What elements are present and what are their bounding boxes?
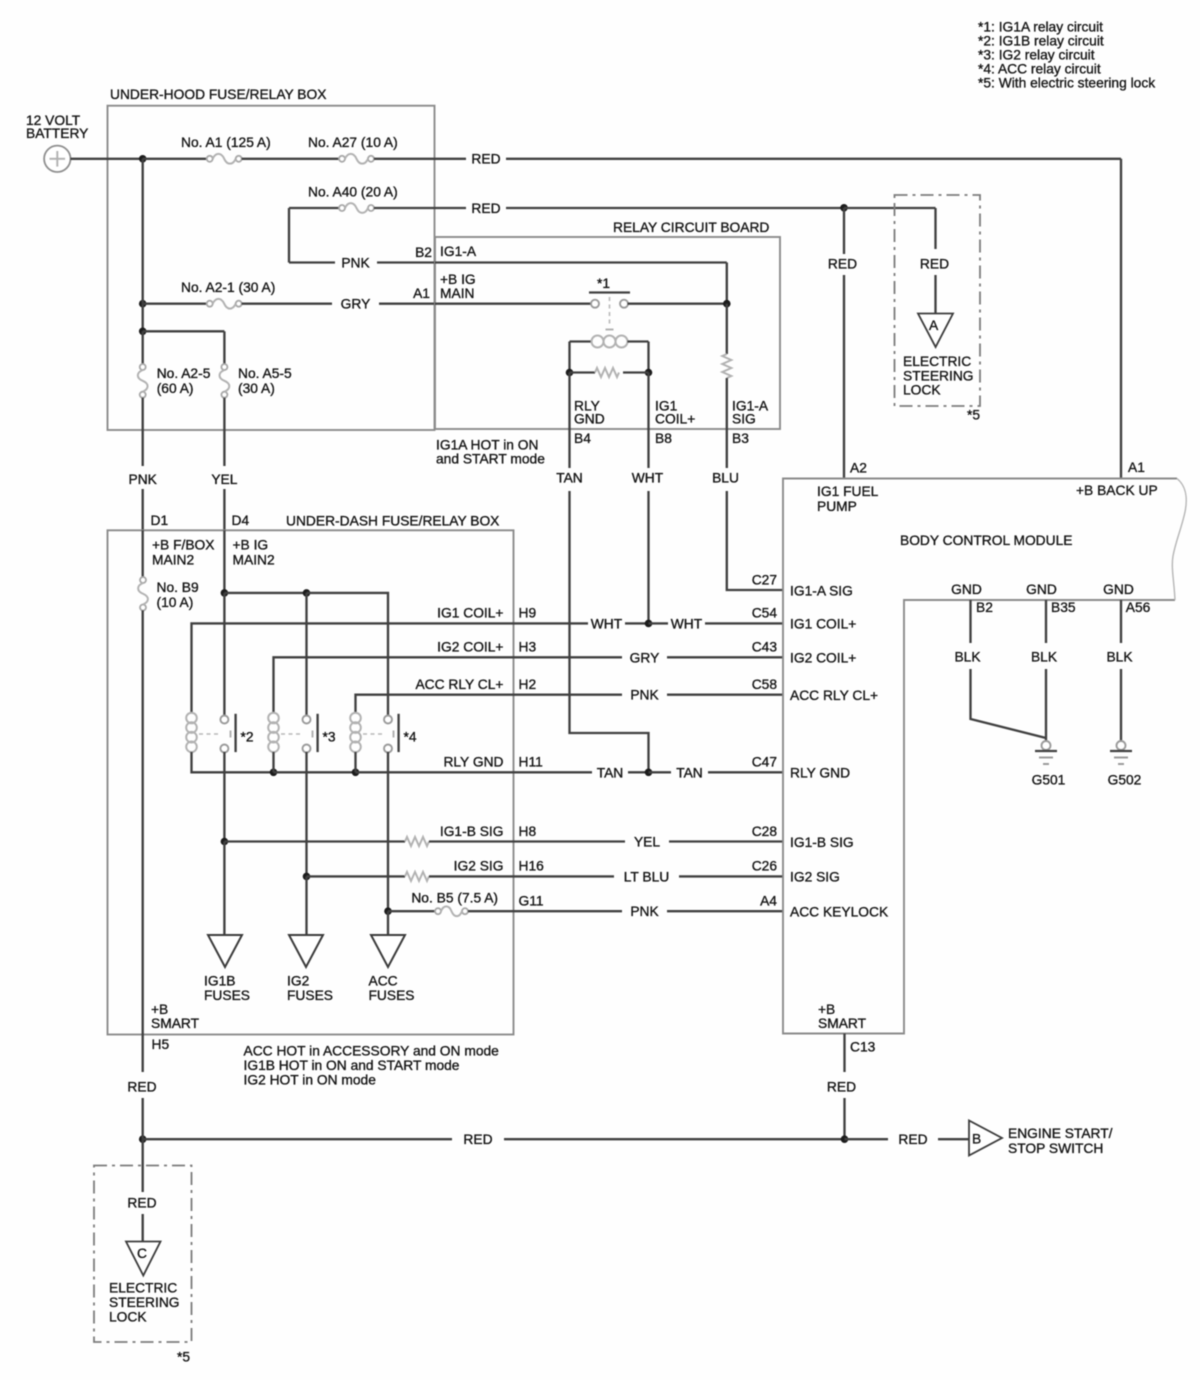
- relay *2 coil (IG1B relay): [186, 713, 197, 724]
- svg-text:A1: A1: [1128, 460, 1145, 475]
- svg-text:G502: G502: [1108, 773, 1142, 788]
- resistor R4 (IG2 SIG): [405, 872, 429, 881]
- svg-text:TAN: TAN: [676, 765, 703, 780]
- svg-text:RED: RED: [127, 1196, 156, 1211]
- svg-text:TAN: TAN: [597, 765, 624, 780]
- node J6 RLY GND junction: [566, 369, 574, 377]
- wire fuse A2-5 to box edge (PNK feed): [142, 398, 144, 466]
- relay *2 contacts: [220, 716, 228, 724]
- resistor R2 (IG1-A SIG): [726, 304, 728, 354]
- svg-text:+B: +B: [151, 1002, 168, 1017]
- svg-text:ACC HOT in ACCESSORY and ON mo: ACC HOT in ACCESSORY and ON mode: [244, 1044, 500, 1059]
- wire BCM B2 to BLK label: [969, 600, 971, 643]
- wire coil left leg down: [568, 342, 570, 373]
- svg-text:IG1A HOT in ON: IG1A HOT in ON: [436, 438, 539, 453]
- svg-text:+B BACK UP: +B BACK UP: [1076, 483, 1158, 498]
- svg-text:A2: A2: [850, 461, 867, 476]
- wire pin D4 down to node J8: [223, 530, 225, 593]
- wire J9 down to relay *3 contact: [305, 593, 307, 716]
- wire PNK label to relay board pin B2: [377, 261, 435, 263]
- svg-text:C54: C54: [752, 606, 778, 621]
- wire GRY label to BCM pin C43: [667, 656, 783, 658]
- svg-text:G501: G501: [1032, 773, 1066, 788]
- wire BLK label B2 diagonal to G501: [971, 669, 1047, 738]
- svg-text:+B IG: +B IG: [233, 538, 269, 553]
- svg-text:H16: H16: [519, 859, 545, 874]
- wire PNK label to BCM pin C58: [667, 694, 783, 696]
- wire RED label to connector A: [934, 275, 936, 314]
- wire B2 IG1-A inside relay board: [435, 261, 727, 263]
- svg-text:RED: RED: [828, 257, 857, 272]
- wire J4 down to fuse A2-5: [142, 331, 144, 364]
- wire H9 to WHT label: [514, 622, 589, 624]
- wire J12 to resistor R3: [224, 840, 405, 842]
- svg-text:PNK: PNK: [341, 256, 370, 271]
- fuse group triangle IG2 FUSES: [289, 935, 323, 967]
- wire WHT to node J15: [625, 622, 649, 624]
- svg-text:MAIN2: MAIN2: [233, 553, 275, 568]
- fuse No. B9 (10 A): [140, 577, 146, 583]
- svg-text:No. A1 (125 A): No. A1 (125 A): [181, 135, 271, 150]
- svg-text:IG2: IG2: [287, 974, 309, 989]
- wire J8 down to relay *2 contact: [223, 593, 225, 716]
- svg-text:UNDER-DASH FUSE/RELAY BOX: UNDER-DASH FUSE/RELAY BOX: [286, 513, 499, 528]
- svg-text:PNK: PNK: [129, 472, 158, 487]
- node J3 GRY branch junction: [139, 300, 147, 308]
- wire node J3 to fuse A2-1: [143, 303, 207, 305]
- relay *3 coil (IG2 relay): [268, 713, 279, 724]
- wire A5-5 column down to fuse A5-5: [223, 331, 225, 364]
- svg-text:GND: GND: [1026, 582, 1057, 597]
- svg-text:IG1 COIL+: IG1 COIL+: [437, 606, 503, 621]
- wire RED label to BCM pin A2: [843, 275, 845, 479]
- wire H16 to LT BLU label: [514, 875, 615, 877]
- svg-text:(10 A): (10 A): [157, 595, 194, 610]
- wire RLY GND row J10 to J11: [274, 771, 356, 773]
- svg-text:FUSES: FUSES: [369, 988, 415, 1003]
- wire IG1-A down to relay contact node: [726, 263, 728, 304]
- svg-text:*5: *5: [177, 1350, 190, 1365]
- svg-text:B8: B8: [655, 431, 672, 446]
- svg-text:A1: A1: [413, 286, 430, 301]
- svg-text:IG2 COIL+: IG2 COIL+: [437, 640, 503, 655]
- wire RED bus J18 to label: [143, 1138, 452, 1140]
- relay *4 coil (ACC relay): [350, 713, 361, 724]
- wire fuse A40 to RED label: [374, 207, 466, 209]
- wire fuse B9 down to +B SMART / H5: [142, 611, 144, 1035]
- wire battery positive to node J1: [71, 158, 143, 160]
- connector B (triangle to engine start/stop switch): [969, 1121, 1002, 1156]
- svg-text:B3: B3: [732, 431, 749, 446]
- wire relay *3 contact down to node J13: [305, 752, 307, 876]
- svg-text:ACC RLY CL+: ACC RLY CL+: [415, 677, 503, 692]
- svg-text:RLY GND: RLY GND: [790, 766, 850, 781]
- wire relay *2 contact down to node J12: [223, 752, 225, 842]
- wire TAN to node J16: [628, 771, 649, 773]
- svg-text:RED: RED: [471, 201, 500, 216]
- svg-text:C13: C13: [850, 1040, 876, 1055]
- node J9 feed junction: [303, 589, 311, 597]
- wire pin B3 to BLU label: [726, 429, 728, 468]
- svg-text:BLU: BLU: [712, 471, 739, 486]
- svg-text:FUSES: FUSES: [204, 988, 250, 1003]
- svg-text:No. B9: No. B9: [157, 580, 200, 595]
- wire J14 down to ACC fuses triangle: [387, 911, 389, 935]
- svg-text:No. B5 (7.5 A): No. B5 (7.5 A): [411, 891, 498, 906]
- wire A40 branch to fuse A40: [289, 207, 339, 209]
- resistor R1 (relay suppression): [570, 371, 596, 373]
- svg-text:WHT: WHT: [632, 471, 664, 486]
- wire steering lock corner down to RED label: [934, 208, 936, 249]
- wire J13 to resistor R4: [307, 875, 406, 877]
- body control module box: [783, 479, 1177, 1034]
- svg-text:A: A: [929, 318, 939, 333]
- svg-text:No. A40 (20 A): No. A40 (20 A): [308, 185, 398, 200]
- svg-text:(60 A): (60 A): [157, 381, 194, 396]
- svg-text:PNK: PNK: [630, 904, 659, 919]
- relay *3 contacts: [303, 716, 311, 724]
- svg-text:RED: RED: [471, 152, 500, 167]
- svg-text:*3: *3: [323, 730, 336, 745]
- svg-text:H9: H9: [519, 606, 537, 621]
- wire WHT label down to IG1 COIL+ row: [647, 491, 649, 623]
- wire down to BCM pin A1 +B BACK UP: [1120, 159, 1122, 479]
- svg-text:STOP SWITCH: STOP SWITCH: [1008, 1141, 1103, 1156]
- svg-text:*4: *4: [404, 730, 417, 745]
- svg-text:WHT: WHT: [671, 616, 703, 631]
- wire feed row J8 to J9: [224, 592, 306, 594]
- wire relay *2 coil to RLY GND row: [192, 752, 274, 772]
- wire PNK label to under-dash pin D1: [142, 489, 144, 530]
- svg-text:YEL: YEL: [211, 472, 237, 487]
- node J10 RLY GND junction (*3 coil): [270, 769, 278, 777]
- svg-text:H5: H5: [152, 1037, 170, 1052]
- svg-text:IG1-B SIG: IG1-B SIG: [790, 835, 854, 850]
- wire BCM C13 down to RED label: [843, 1034, 845, 1073]
- wire YEL label to BCM pin C28: [669, 840, 783, 842]
- node J2 junction to BCM A2: [840, 204, 848, 212]
- svg-text:PUMP: PUMP: [817, 499, 857, 514]
- svg-text:PNK: PNK: [630, 688, 659, 703]
- svg-text:H11: H11: [519, 755, 543, 770]
- wire corner A40 branch vertical: [288, 208, 290, 263]
- wire IG1 COIL+ elbow to relay *2 coil: [192, 623, 514, 713]
- svg-text:RED: RED: [827, 1080, 856, 1095]
- svg-text:RED: RED: [920, 257, 949, 272]
- svg-text:RED: RED: [127, 1080, 156, 1095]
- node J8 relay feed junction: [221, 589, 229, 597]
- wire J15 to WHT label right: [649, 622, 669, 624]
- svg-text:FUSES: FUSES: [287, 988, 333, 1003]
- svg-text:UNDER-HOOD FUSE/RELAY BOX: UNDER-HOOD FUSE/RELAY BOX: [110, 87, 326, 102]
- electric steering lock dash-dot box (A): [895, 195, 981, 406]
- wire BCM A56 to BLK label: [1120, 600, 1122, 643]
- wire relay *4 coil to RLY GND row: [354, 752, 356, 772]
- node J11 RLY GND junction (*4 coil): [352, 769, 360, 777]
- svg-text:GND: GND: [1103, 582, 1134, 597]
- wire RLY GND leg to pin B4: [568, 373, 570, 430]
- node J12 IG1-B SIG junction: [221, 838, 229, 846]
- relay coil L1 (IG1A relay): [570, 340, 592, 342]
- wire PNK label to BCM pin A4: [667, 910, 783, 912]
- svg-text:B: B: [972, 1132, 981, 1147]
- wire RED label to node J18: [142, 1098, 144, 1139]
- wire battery feed down J1 to J3: [142, 159, 144, 304]
- wire resistor R4 to pin H16: [429, 875, 514, 877]
- svg-text:COIL+: COIL+: [655, 412, 695, 427]
- svg-text:(30 A): (30 A): [238, 381, 275, 396]
- wire IG2 COIL+ elbow to relay *3 coil: [274, 657, 514, 713]
- svg-text:LOCK: LOCK: [903, 383, 941, 398]
- svg-text:G11: G11: [519, 894, 544, 909]
- wire RED label to connector B: [938, 1138, 969, 1140]
- wire YEL label to under-dash pin D4: [223, 489, 225, 530]
- svg-text:LOCK: LOCK: [109, 1310, 147, 1325]
- svg-text:RED: RED: [463, 1132, 492, 1147]
- svg-text:*4: ACC relay circuit: *4: ACC relay circuit: [978, 62, 1101, 77]
- wire relay *4 contact down to node J14: [387, 752, 389, 911]
- svg-text:GRY: GRY: [341, 297, 371, 312]
- svg-text:STEERING: STEERING: [903, 369, 974, 384]
- body control module torn right edge: [1172, 479, 1186, 601]
- svg-text:*5: With electric steering loc: *5: With electric steering lock: [978, 76, 1155, 91]
- wire H2 to PNK label: [514, 694, 623, 696]
- wire node J18 down to RED label (C): [142, 1139, 144, 1192]
- wire pin B4 to TAN label: [568, 429, 570, 468]
- svg-text:C26: C26: [752, 859, 778, 874]
- wire fuse A1 to fuse A27: [242, 158, 339, 160]
- relay circuit board box: [435, 237, 780, 429]
- wire RED label to node J2: [506, 207, 844, 209]
- svg-text:A56: A56: [1126, 600, 1151, 615]
- electric steering lock dash-dot box (C): [94, 1166, 192, 1343]
- wire ACC RLY CL+ elbow to relay *4 coil: [356, 695, 514, 713]
- svg-text:C28: C28: [752, 824, 778, 839]
- svg-text:IG1B HOT in ON and START mode: IG1B HOT in ON and START mode: [244, 1058, 460, 1073]
- svg-text:A4: A4: [760, 894, 777, 909]
- node J1 battery feed junction: [139, 155, 147, 163]
- wire H11 to TAN label: [514, 771, 593, 773]
- svg-text:*2: IG1B relay circuit: *2: IG1B relay circuit: [978, 34, 1104, 49]
- wire RED label to connector C: [142, 1214, 144, 1242]
- svg-text:*1: *1: [597, 276, 610, 291]
- svg-text:No. A2-1 (30 A): No. A2-1 (30 A): [181, 280, 275, 295]
- ground G501: [1042, 741, 1051, 750]
- svg-text:BATTERY: BATTERY: [26, 126, 88, 141]
- fuse group triangle ACC FUSES: [371, 935, 405, 967]
- fuse No. A2-5 (60 A): [140, 364, 146, 370]
- svg-text:IG2 SIG: IG2 SIG: [790, 870, 840, 885]
- svg-text:SMART: SMART: [818, 1016, 867, 1031]
- wire RLY GND row to pin H11: [356, 771, 514, 773]
- wire J12 down to IG1B fuses triangle: [223, 842, 225, 936]
- svg-text:*2: *2: [241, 730, 254, 745]
- svg-text:D1: D1: [151, 513, 169, 528]
- wire TAN label down elbow to RLY GND row: [570, 491, 649, 772]
- svg-text:RELAY CIRCUIT BOARD: RELAY CIRCUIT BOARD: [613, 220, 769, 235]
- svg-text:C58: C58: [752, 677, 778, 692]
- svg-text:IG2 SIG: IG2 SIG: [454, 859, 504, 874]
- wire GRY label to relay board pin A1: [379, 303, 435, 305]
- svg-text:IG1 COIL+: IG1 COIL+: [790, 617, 856, 632]
- wire RED label to top-right corner: [506, 158, 1121, 160]
- svg-text:B2: B2: [976, 600, 993, 615]
- wire A1 +B IG MAIN to relay contact: [435, 303, 591, 305]
- ground G502: [1117, 741, 1126, 750]
- svg-text:ACC: ACC: [369, 974, 398, 989]
- wire node J2 down to RED label (A2): [843, 208, 845, 254]
- svg-text:STEERING: STEERING: [109, 1295, 180, 1310]
- wire J13 down to IG2 fuses triangle: [305, 876, 307, 935]
- svg-text:ENGINE START/: ENGINE START/: [1008, 1126, 1113, 1141]
- svg-text:IG2 COIL+: IG2 COIL+: [790, 651, 856, 666]
- svg-text:BLK: BLK: [1106, 650, 1133, 665]
- wire H3 to GRY label: [514, 656, 623, 658]
- svg-text:+B: +B: [818, 1002, 835, 1017]
- relay *4 contacts: [384, 716, 392, 724]
- wire fuse B5 to pin G11: [468, 910, 514, 912]
- svg-text:B4: B4: [574, 431, 591, 446]
- svg-text:*3: IG2 relay circuit: *3: IG2 relay circuit: [978, 48, 1095, 63]
- svg-text:ELECTRIC: ELECTRIC: [109, 1281, 177, 1296]
- svg-text:ACC RLY CL+: ACC RLY CL+: [790, 688, 878, 703]
- svg-text:IG1-A: IG1-A: [440, 244, 477, 259]
- svg-text:C27: C27: [752, 572, 777, 587]
- wire feed row J9 to ACC column: [307, 593, 389, 716]
- wire node J1 to fuse A1: [143, 158, 207, 160]
- under-dash fuse/relay box: [108, 530, 514, 1034]
- svg-text:MAIN2: MAIN2: [152, 553, 194, 568]
- node J5 IG1-A sig junction: [723, 300, 731, 308]
- svg-text:D4: D4: [232, 513, 250, 528]
- wire J16 to TAN label right: [649, 771, 672, 773]
- svg-text:GRY: GRY: [630, 650, 660, 665]
- svg-text:TAN: TAN: [556, 471, 583, 486]
- wire TAN label to BCM pin C47: [708, 771, 783, 773]
- wire fuse A2-1 to GRY label: [242, 303, 332, 305]
- node J15 WHT junction: [645, 620, 653, 628]
- connector C (triangle): [126, 1242, 161, 1276]
- wire RED label to node J17: [843, 1098, 845, 1139]
- svg-text:SMART: SMART: [151, 1016, 200, 1031]
- wire WHT label to BCM pin C54: [705, 622, 783, 624]
- svg-text:IG1-B SIG: IG1-B SIG: [440, 824, 504, 839]
- svg-text:C47: C47: [752, 755, 777, 770]
- wire H8 to YEL label: [514, 840, 626, 842]
- svg-text:+B IG: +B IG: [440, 272, 476, 287]
- under-hood fuse/relay box: [108, 106, 435, 430]
- svg-text:IG1B: IG1B: [204, 974, 235, 989]
- svg-text:SIG: SIG: [732, 412, 756, 427]
- node J13 IG2 SIG junction: [303, 873, 311, 881]
- svg-text:IG1 FUEL: IG1 FUEL: [817, 484, 879, 499]
- svg-text:B2: B2: [415, 245, 432, 260]
- svg-text:No. A27 (10 A): No. A27 (10 A): [308, 135, 398, 150]
- wire fuse A27 to RED label: [374, 158, 466, 160]
- wire BLK label A56 to ground G502: [1120, 669, 1122, 741]
- wire fuse A5-5 to box edge (YEL feed): [223, 398, 225, 466]
- wire resistor R3 to pin H8: [429, 840, 514, 842]
- wire RED bus label to node J17: [504, 1138, 845, 1140]
- connector A (triangle): [918, 314, 953, 348]
- svg-text:H2: H2: [519, 677, 537, 692]
- node J14 ACC keylock junction: [384, 907, 392, 915]
- svg-text:IG2 HOT in ON mode: IG2 HOT in ON mode: [244, 1073, 377, 1088]
- wire LT BLU label to BCM pin C26: [679, 875, 783, 877]
- wire G11 to PNK label: [514, 910, 623, 912]
- fuse No. A5-5 (30 A): [221, 364, 227, 370]
- svg-text:No. A2-5: No. A2-5: [157, 366, 211, 381]
- wire BLU label down to C27 elbow: [727, 491, 783, 590]
- wire relay contact to node J5: [628, 303, 727, 305]
- svg-text:ELECTRIC: ELECTRIC: [903, 354, 971, 369]
- svg-text:*1: IG1A relay circuit: *1: IG1A relay circuit: [978, 20, 1103, 35]
- svg-text:and START mode: and START mode: [436, 452, 545, 467]
- wire J3 down to node J4: [142, 304, 144, 332]
- svg-text:MAIN: MAIN: [440, 286, 475, 301]
- resistor R3 (IG1-B SIG): [405, 837, 429, 846]
- wire node J2 to steering lock corner: [844, 207, 936, 209]
- wire IG1 COIL+ leg to pin B8: [647, 373, 649, 430]
- svg-text:+B F/BOX: +B F/BOX: [152, 538, 215, 553]
- svg-text:WHT: WHT: [591, 616, 623, 631]
- svg-text:B35: B35: [1051, 600, 1076, 615]
- svg-text:BLK: BLK: [954, 650, 981, 665]
- node J18 H5 RED junction: [139, 1135, 147, 1143]
- wire PNK row to label: [289, 261, 335, 263]
- svg-text:H8: H8: [519, 824, 537, 839]
- wire node J17 to RED label right: [845, 1138, 889, 1140]
- svg-text:LT BLU: LT BLU: [624, 869, 670, 884]
- svg-text:YEL: YEL: [634, 835, 660, 850]
- svg-text:BLK: BLK: [1031, 650, 1058, 665]
- node J17 C13 junction: [841, 1135, 849, 1143]
- svg-text:RED: RED: [898, 1132, 927, 1147]
- node J4 fusible link junction: [139, 328, 147, 336]
- wire node J4 branch to A5-5 column: [143, 330, 225, 332]
- wire relay *3 coil to RLY GND row: [272, 752, 274, 772]
- svg-text:IG1-A SIG: IG1-A SIG: [790, 584, 853, 599]
- svg-text:H3: H3: [519, 640, 537, 655]
- wire J14 to fuse B5: [388, 910, 435, 912]
- wire pin B8 to WHT label: [647, 429, 649, 468]
- svg-text:No. A5-5: No. A5-5: [238, 366, 292, 381]
- wire H5 down to RED label: [142, 1035, 144, 1073]
- wire BLK label B35 to ground G501: [1045, 669, 1047, 741]
- battery 12 VOLT BATTERY: [44, 146, 70, 172]
- node J16 TAN junction: [645, 769, 653, 777]
- wire coil right leg down: [647, 342, 649, 373]
- svg-text:*5: *5: [967, 408, 980, 423]
- svg-text:C: C: [137, 1246, 147, 1261]
- wire pin D1 down to fuse B9: [142, 530, 144, 577]
- fuse group triangle IG1B FUSES: [208, 935, 242, 967]
- svg-text:RLY GND: RLY GND: [443, 755, 503, 770]
- wire BCM B35 to BLK label: [1045, 600, 1047, 643]
- svg-text:GND: GND: [951, 582, 982, 597]
- svg-text:BODY CONTROL MODULE: BODY CONTROL MODULE: [900, 533, 1073, 548]
- node J7 IG1 COIL+ junction: [645, 369, 653, 377]
- svg-text:C43: C43: [752, 640, 778, 655]
- svg-text:ACC KEYLOCK: ACC KEYLOCK: [790, 905, 889, 920]
- svg-text:GND: GND: [574, 412, 605, 427]
